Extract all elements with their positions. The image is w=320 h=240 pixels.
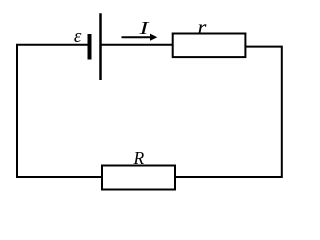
current arrow I [122, 34, 158, 41]
svg-text:R: R [132, 148, 144, 168]
svg-text:ε: ε [74, 26, 82, 47]
resistor R (load) [102, 166, 175, 190]
svg-text:r: r [197, 14, 206, 39]
resistor r (internal resistance) [173, 34, 246, 58]
battery U1 positive plate (long thin) [99, 13, 102, 80]
battery U1 negative plate (short thick) [88, 34, 92, 60]
wire: resistor r to right loop (top-right, right side, bottom-right segments) [175, 47, 282, 177]
svg-text:I: I [138, 18, 150, 38]
wire: left loop (top-left, left side, bottom-left segments) [17, 45, 103, 177]
wire: battery positive to resistor r [101, 44, 173, 46]
